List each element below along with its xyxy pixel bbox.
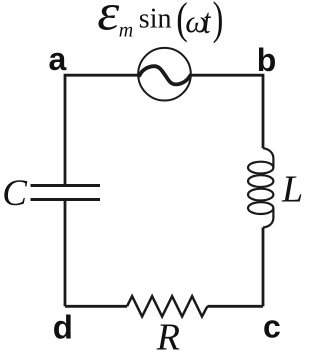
svg-text:m: m [119, 20, 133, 42]
svg-text:R: R [156, 317, 180, 352]
svg-text:ε: ε [97, 0, 120, 42]
svg-text:L: L [281, 169, 303, 211]
svg-text:): ) [213, 0, 224, 45]
svg-text:sin: sin [139, 4, 172, 35]
svg-text:c: c [263, 308, 281, 344]
svg-text:d: d [53, 308, 73, 345]
svg-text:C: C [2, 173, 28, 214]
svg-text:b: b [257, 42, 277, 78]
svg-text:a: a [49, 41, 67, 77]
svg-text:t: t [203, 1, 211, 41]
